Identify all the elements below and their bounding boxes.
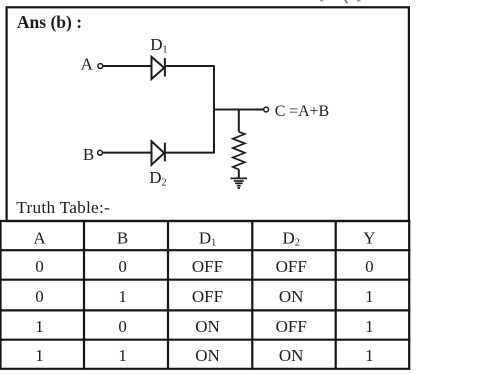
- wire from output node down to resistor: [238, 110, 240, 132]
- truth table row 1: [35, 257, 373, 276]
- truth table header row: [33, 228, 375, 248]
- svg-text:A: A: [81, 54, 94, 73]
- svg-text:1: 1: [365, 346, 374, 365]
- svg-text:B: B: [117, 228, 128, 247]
- svg-text:OFF: OFF: [276, 317, 307, 336]
- terminal circle at input A: [98, 64, 103, 69]
- wire from A terminal to diode D1 anode: [103, 65, 150, 67]
- wire from D2 cathode to bus: [165, 152, 214, 154]
- svg-text:Ans (b) :: Ans (b) :: [17, 12, 82, 32]
- stray clipped glyph fragments at top edge: [320, 0, 361, 4]
- svg-text:Truth Table:-: Truth Table:-: [16, 198, 110, 217]
- svg-text:0: 0: [35, 287, 44, 306]
- ground symbol: [231, 178, 248, 188]
- answer box frame: [7, 7, 409, 221]
- wire from resistor to ground: [238, 170, 240, 179]
- wire from B terminal to diode D2 anode: [103, 152, 151, 154]
- terminal circle at input B: [98, 150, 103, 155]
- svg-text:1: 1: [365, 287, 374, 306]
- svg-text:ON: ON: [279, 287, 304, 306]
- svg-text:1: 1: [118, 346, 127, 365]
- svg-text:1: 1: [365, 317, 374, 336]
- terminal circle at output C: [264, 107, 269, 112]
- svg-text:C =A+B: C =A+B: [275, 103, 329, 120]
- svg-text:B: B: [83, 145, 94, 164]
- resistor R (pull-down): [233, 132, 245, 170]
- svg-text:1: 1: [118, 287, 127, 306]
- svg-text:ON: ON: [279, 346, 304, 365]
- svg-text:0: 0: [35, 257, 44, 276]
- diode D2: [152, 141, 165, 165]
- svg-text:OFF: OFF: [192, 257, 223, 276]
- svg-text:1: 1: [35, 317, 44, 336]
- truth table grid: [0, 221, 410, 369]
- svg-text:ON: ON: [195, 346, 220, 365]
- svg-text:0: 0: [118, 257, 127, 276]
- diode D1: [152, 57, 165, 79]
- truth table row 3: [35, 317, 373, 336]
- truth table row 2: [35, 287, 373, 306]
- svg-text:1: 1: [35, 346, 44, 365]
- output wire to node C: [214, 109, 263, 111]
- svg-text:0: 0: [118, 317, 127, 336]
- svg-text:Y: Y: [363, 228, 375, 247]
- svg-text:0: 0: [365, 257, 374, 276]
- svg-text:ON: ON: [195, 317, 220, 336]
- truth table row 4: [35, 346, 373, 365]
- svg-text:OFF: OFF: [192, 287, 223, 306]
- svg-text:OFF: OFF: [276, 257, 307, 276]
- wire from D1 cathode to bus corner: [165, 65, 214, 67]
- vertical bus wire joining D1 and D2 outputs: [213, 65, 215, 153]
- svg-text:A: A: [33, 228, 46, 247]
